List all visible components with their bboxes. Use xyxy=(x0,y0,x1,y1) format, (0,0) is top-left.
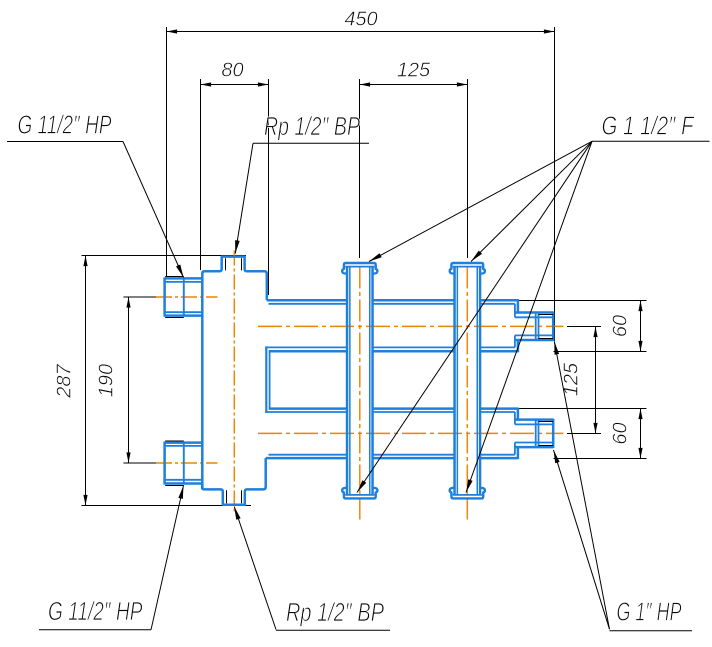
svg-text:Rp 1/2″ BP: Rp 1/2″ BP xyxy=(264,111,360,141)
centerline left stub top xyxy=(156,296,218,298)
body right wall between channels inner line xyxy=(269,351,271,408)
left stub top: inner lines xyxy=(165,281,203,283)
pipe 1 bore walls xyxy=(349,267,351,495)
dimension 60 upper line xyxy=(640,301,642,352)
upper channel bore bottom xyxy=(265,346,347,348)
dimension 80 extension lines xyxy=(200,79,202,270)
pipe 2 bottom union cap xyxy=(450,488,485,499)
svg-text:60: 60 xyxy=(610,315,632,337)
svg-text:450: 450 xyxy=(344,9,377,31)
pipe 2 outer walls xyxy=(453,267,456,494)
leader to pipe 2 top cap xyxy=(471,141,592,261)
svg-text:125: 125 xyxy=(397,60,431,82)
dimension 80 line xyxy=(201,84,269,86)
leader to top left stub xyxy=(123,142,184,278)
right port upper: hex divider xyxy=(535,313,537,341)
leader to upper right port xyxy=(554,341,609,629)
lower channel outer wall top xyxy=(269,407,347,410)
left stub G 1 1/2 HP top: thread crest lines xyxy=(165,276,184,278)
dimension 125 right extension lines xyxy=(567,326,601,328)
svg-text:Rp 1/2″ BP: Rp 1/2″ BP xyxy=(286,597,385,627)
leader to pipe 1 bottom cap xyxy=(357,141,592,492)
top stub thread lines xyxy=(225,258,227,270)
dimension 190 line xyxy=(128,297,130,463)
dimension 60 lower extension lines xyxy=(519,408,647,410)
leader to bottom Rp stub xyxy=(234,507,276,630)
right port G 1 HP upper: step verticals xyxy=(517,299,520,312)
bottom stub thread lines xyxy=(226,490,228,503)
dimension 450 extension lines xyxy=(166,27,168,277)
left stub G 1 1/2 HP top: outer rect xyxy=(165,277,203,280)
centerline left stub bottom xyxy=(156,462,218,464)
lower channel outer wall bottom xyxy=(266,457,347,460)
left stub top: collar divider xyxy=(183,278,185,315)
dimension 125 top extension lines xyxy=(359,79,361,258)
dimension 125 right line xyxy=(595,327,597,434)
left stub G 1 1/2 HP bottom: outer rect xyxy=(165,441,203,444)
left stub G 1 1/2 HP bottom: thread crest lines xyxy=(165,440,184,442)
leader to top Rp stub xyxy=(235,143,253,253)
dimension 450 line xyxy=(167,31,555,33)
right port upper: inner lines xyxy=(515,316,553,318)
right port lower: thread root lines xyxy=(539,421,554,423)
leader to bottom left stub xyxy=(151,486,184,630)
left stub bottom: inner lines xyxy=(165,445,203,447)
pipe 1 G 1 1/2 F top union cap xyxy=(342,263,377,274)
right port upper: thread root lines xyxy=(539,314,554,316)
svg-text:60: 60 xyxy=(610,422,632,444)
svg-text:G 1 1/2″ F: G 1 1/2″ F xyxy=(602,111,696,141)
centerline pipe 1 vertical xyxy=(359,267,361,520)
centerline lower channel xyxy=(258,432,564,434)
centerline vertical axis of Rp 1/2 stubs xyxy=(233,251,235,512)
right port G 1 HP lower: step verticals xyxy=(517,408,520,420)
leader to lower right port xyxy=(554,450,610,629)
body bottom profile with Rp 1/2 BP bottom stub xyxy=(202,458,265,505)
dimension 190 extension lines xyxy=(124,296,166,298)
upper channel outer wall top xyxy=(267,299,347,302)
pipe 2 bore walls xyxy=(456,267,458,495)
right port upper: outer rect xyxy=(515,311,553,314)
svg-text:G 11/2″ HP: G 11/2″ HP xyxy=(18,110,112,140)
body top profile with Rp 1/2 BP top stub xyxy=(202,257,266,301)
pipe 1 bottom union cap xyxy=(342,488,377,499)
leader to pipe 1 top cap xyxy=(369,141,592,261)
svg-text:190: 190 xyxy=(96,364,118,397)
svg-text:287: 287 xyxy=(54,363,76,398)
centerline upper channel xyxy=(258,325,564,327)
upper channel outer wall bottom xyxy=(269,350,347,353)
dimension 60 upper extension lines xyxy=(519,300,647,302)
body right wall between channels outer line xyxy=(265,346,267,413)
left stub bottom: collar divider xyxy=(183,443,185,484)
right port lower: hex divider xyxy=(535,420,537,448)
dimension 60 lower line xyxy=(640,409,642,459)
svg-text:80: 80 xyxy=(221,60,243,82)
pipe 1 outer walls xyxy=(346,267,349,494)
svg-text:G 1″ HP: G 1″ HP xyxy=(617,596,682,626)
lower channel bore top xyxy=(265,411,347,413)
dimension 287 line xyxy=(85,256,87,506)
right port lower: inner lines xyxy=(515,423,553,425)
leader to pipe 2 bottom cap xyxy=(466,141,592,492)
right port lower: outer rect xyxy=(515,418,553,421)
lower channel bore bottom xyxy=(269,454,348,456)
svg-text:G 11/2″ HP: G 11/2″ HP xyxy=(48,596,143,626)
centerline pipe 2 vertical xyxy=(466,267,468,520)
pipe 2 G 1 1/2 F top union cap xyxy=(450,263,485,274)
dimension 287 extension lines xyxy=(82,255,247,257)
dimension 125 top line xyxy=(360,84,468,86)
upper channel bore top xyxy=(269,303,348,305)
body left edge xyxy=(201,278,204,489)
